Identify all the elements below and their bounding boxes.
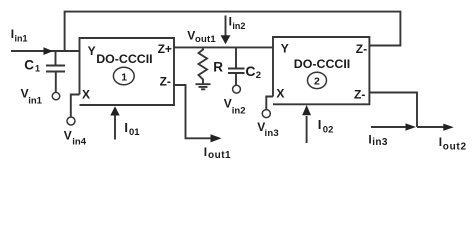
svg-text:C: C (245, 63, 255, 79)
svg-text:R: R (213, 59, 223, 74)
svg-text:out1: out1 (208, 150, 231, 161)
svg-text:V: V (224, 96, 232, 110)
svg-text:Z-: Z- (354, 87, 365, 101)
svg-text:in2: in2 (232, 105, 246, 116)
svg-text:in4: in4 (72, 136, 86, 147)
svg-text:Z-: Z- (356, 42, 367, 56)
svg-text:Z-: Z- (160, 74, 171, 88)
svg-text:DO-CCCII: DO-CCCII (96, 52, 152, 66)
svg-text:in3: in3 (265, 128, 279, 139)
svg-text:I: I (318, 117, 322, 132)
svg-text:2: 2 (256, 70, 261, 81)
svg-text:01: 01 (129, 127, 140, 138)
svg-text:X: X (82, 87, 90, 101)
svg-text:Y: Y (88, 44, 96, 58)
svg-text:in1: in1 (28, 96, 42, 107)
svg-text:1: 1 (121, 71, 127, 83)
svg-text:in2: in2 (232, 21, 245, 31)
svg-text:I: I (124, 120, 128, 135)
svg-text:1: 1 (35, 64, 40, 74)
svg-text:X: X (276, 86, 284, 100)
svg-text:DO-CCCII: DO-CCCII (294, 57, 350, 71)
svg-text:Z+: Z+ (158, 42, 172, 56)
svg-text:C: C (24, 58, 34, 73)
svg-text:V: V (64, 128, 72, 142)
svg-text:I: I (204, 145, 207, 159)
svg-text:I: I (439, 135, 442, 149)
svg-text:Y: Y (281, 41, 289, 55)
svg-text:out1: out1 (195, 34, 216, 45)
svg-text:02: 02 (323, 124, 334, 135)
svg-text:V: V (187, 29, 195, 43)
svg-text:in3: in3 (372, 137, 388, 148)
svg-text:2: 2 (314, 76, 320, 88)
svg-text:out2: out2 (443, 142, 467, 153)
svg-text:in1: in1 (15, 33, 28, 43)
